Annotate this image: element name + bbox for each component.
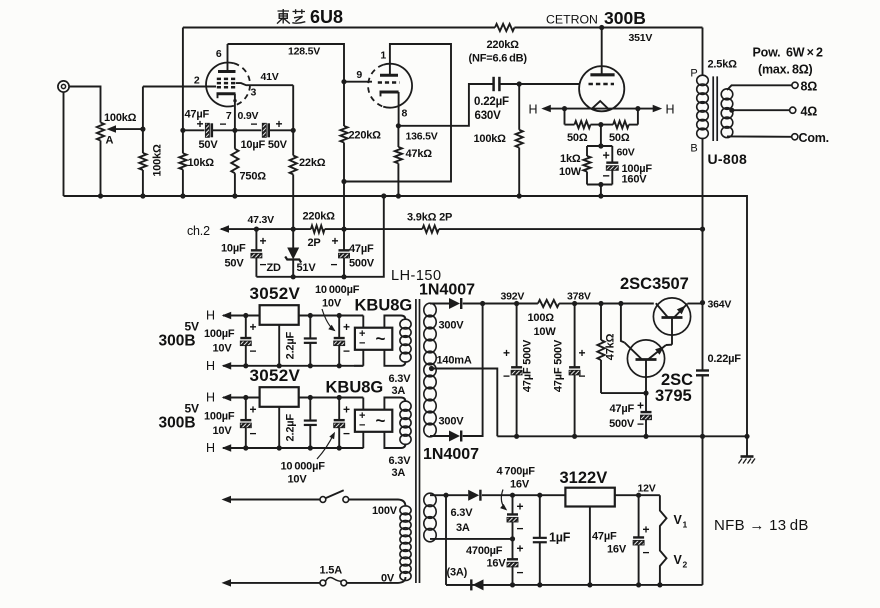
- label − (4700 #2): [517, 566, 524, 580]
- node cathode junction: [232, 128, 237, 133]
- svg-text:3: 3: [251, 87, 257, 99]
- label 4700µF #2: [466, 545, 503, 557]
- label 12V: [638, 483, 656, 495]
- label 6U8: [310, 7, 343, 27]
- capacitor 0.22µF output: [696, 303, 709, 437]
- svg-text:−: −: [331, 258, 338, 272]
- svg-text:KBU8G: KBU8G: [355, 297, 413, 315]
- svg-text:4Ω: 4Ω: [801, 105, 818, 119]
- svg-text:−: −: [503, 369, 510, 383]
- capacitor 47µF 16V: [633, 495, 644, 585]
- wire bottom diode up: [463, 304, 483, 437]
- label + in KBU8G (block 1): [359, 328, 365, 340]
- svg-text:47kΩ: 47kΩ: [406, 148, 433, 160]
- LH-150 core: [416, 299, 420, 583]
- plate bar 300B: [590, 28, 614, 75]
- node raw 12V: [510, 493, 515, 498]
- wire V1 V2 output: [660, 495, 667, 585]
- resistor 3.9kΩ 2P dropper: [422, 226, 439, 233]
- capacitor 4700µF 16V #2: [507, 539, 518, 585]
- node 100µF bottom (block 2): [243, 445, 248, 450]
- node 47µF 16V top: [636, 493, 641, 498]
- svg-text:47µF 500V: 47µF 500V: [522, 339, 534, 392]
- label ch.2: [187, 224, 210, 238]
- svg-text:47kΩ: 47kΩ: [605, 333, 617, 360]
- node 364V: [700, 300, 705, 305]
- node cathode network top: [598, 143, 603, 148]
- node zener tap: [291, 227, 296, 232]
- node grid-leak ground: [140, 193, 145, 198]
- wire mains line 2: [224, 582, 320, 584]
- svg-text:−: −: [343, 344, 350, 358]
- node 1µF bottom: [537, 582, 542, 587]
- wire Q2 base down: [645, 360, 647, 394]
- label H bottom (block 2): [206, 441, 215, 455]
- node cap1 gnd: [514, 434, 519, 439]
- node Q2 base filter: [643, 391, 648, 396]
- wire 3.9kΩ line left: [344, 228, 422, 230]
- tube U1a 6U8 pentode envelope: [206, 62, 250, 106]
- rectifier KBU8G box (block 2): [355, 410, 392, 432]
- label + (47µF 500V): [332, 234, 339, 248]
- svg-text:1: 1: [380, 50, 386, 62]
- svg-text:−: −: [250, 426, 257, 440]
- label 8Ω: [801, 80, 818, 94]
- node gnd pin (block 2): [277, 445, 282, 450]
- svg-text:10V: 10V: [288, 474, 308, 486]
- node 4700 bottom: [510, 582, 515, 587]
- wire B+ net down to filter node: [343, 182, 345, 230]
- svg-text:16V: 16V: [487, 558, 507, 570]
- svg-text:47µF: 47µF: [610, 403, 635, 415]
- svg-text:V: V: [674, 513, 683, 527]
- label 50Ω left: [567, 132, 588, 144]
- label + (cap2): [579, 346, 586, 360]
- label 136.5V: [406, 131, 438, 143]
- svg-text:392V: 392V: [501, 291, 525, 303]
- node cathode network bottom: [598, 182, 603, 187]
- svg-text:3A: 3A: [392, 467, 406, 479]
- tube V1 300B envelope: [579, 66, 624, 111]
- node rail left junction: [180, 128, 185, 133]
- label 50V: [199, 139, 219, 151]
- wire cathode out to coupling cap: [398, 84, 493, 126]
- node 10µF tap: [254, 227, 259, 232]
- svg-text:12V: 12V: [638, 483, 656, 495]
- svg-text:3122V: 3122V: [560, 469, 608, 487]
- label (NF=6.6dB): [469, 53, 528, 65]
- label 3052V (block 1): [250, 284, 301, 303]
- resistor 1kΩ 10W: [583, 146, 590, 185]
- label 47kΩ: [406, 148, 433, 160]
- wire mains line 1: [224, 499, 320, 501]
- svg-text:1N4007: 1N4007: [419, 282, 475, 299]
- label 630V: [475, 110, 502, 122]
- node 47k ground: [396, 193, 401, 198]
- svg-text:+: +: [343, 320, 350, 334]
- label Com.: [799, 131, 829, 145]
- label 1kΩ: [560, 153, 581, 165]
- svg-text:50V: 50V: [225, 258, 245, 270]
- arrow H left: [541, 105, 551, 113]
- label 5V (block 1): [185, 320, 199, 334]
- wire 47k to base node: [601, 392, 646, 394]
- label − (100µF): [603, 169, 610, 183]
- transistor Q2 2SC3795: [625, 340, 673, 377]
- svg-text:H: H: [206, 359, 215, 373]
- node 750R ground: [232, 193, 237, 198]
- svg-text:A: A: [106, 135, 114, 147]
- svg-text:3A: 3A: [456, 522, 470, 534]
- label 500V: [349, 258, 375, 270]
- label 47µF +: [610, 399, 645, 416]
- label KBU8G (block 1): [355, 297, 413, 315]
- svg-text:364V: 364V: [708, 299, 732, 311]
- wire plate line to node 9: [228, 44, 345, 82]
- svg-text:3A: 3A: [392, 385, 406, 397]
- arrow H right: [653, 105, 663, 113]
- label − (47µF 16V): [643, 546, 650, 560]
- node screen rail junction: [291, 128, 296, 133]
- node doubler top: [443, 493, 448, 498]
- wire cathode rail left: [183, 129, 205, 131]
- svg-text:H: H: [206, 309, 215, 323]
- label H left: [529, 103, 538, 117]
- svg-text:136.5V: 136.5V: [406, 131, 438, 143]
- capacitor 10000µF 10V (block 2): [334, 398, 345, 449]
- wire diode to 392V node: [463, 303, 517, 305]
- svg-text:6: 6: [216, 48, 222, 60]
- node 10000µF top (block 1): [337, 313, 342, 318]
- wire Q2 collector up: [621, 304, 625, 343]
- svg-text:3.9kΩ 2P: 3.9kΩ 2P: [407, 212, 452, 224]
- capacitor 100µF 10V (block 1): [240, 316, 251, 366]
- svg-text:378V: 378V: [567, 291, 591, 303]
- label − (10µF bias): [260, 258, 267, 272]
- svg-text:+: +: [343, 402, 350, 416]
- label 351V: [629, 32, 653, 44]
- svg-text:1N4007: 1N4007: [423, 446, 479, 463]
- svg-text:50V: 50V: [199, 139, 219, 151]
- label − in KBU8G (block 2): [359, 420, 365, 432]
- capacitor 0.22µF 630V coupling: [494, 77, 520, 91]
- wire 3.9kΩ line right: [439, 228, 703, 230]
- svg-text:300B: 300B: [159, 415, 196, 432]
- svg-text:8Ω: 8Ω: [801, 80, 818, 94]
- label − (100µF) (block 1): [250, 344, 257, 358]
- svg-text:6.3V: 6.3V: [389, 373, 412, 385]
- label 50Ω right: [609, 132, 630, 144]
- diode 1N4007 doubler bottom (3A): [446, 579, 513, 590]
- hum pot 50Ω left: [565, 109, 591, 129]
- wire main ground bus: [64, 196, 748, 436]
- label 10V (block 2): [213, 425, 233, 437]
- label 4Ω: [801, 105, 818, 119]
- svg-text:750Ω: 750Ω: [240, 171, 267, 183]
- svg-text:2.5kΩ: 2.5kΩ: [708, 59, 738, 71]
- wire cathode network frame: [587, 146, 612, 196]
- wire 5V bottom rail (block 1): [223, 365, 363, 367]
- label ~ in KBU8G (block 1): [376, 329, 386, 348]
- LH-150 6.3V 3A winding (12V): [424, 493, 436, 542]
- label 140mA: [437, 355, 472, 367]
- svg-text:2.2µF: 2.2µF: [285, 414, 297, 442]
- node fil left: [562, 106, 567, 111]
- svg-text:+: +: [517, 500, 524, 514]
- node cathode ground: [598, 193, 603, 198]
- label 16V #2: [487, 558, 507, 570]
- label 0V: [381, 573, 395, 585]
- node 0.22 gnd: [700, 434, 705, 439]
- node 100µF bottom (block 1): [243, 363, 248, 368]
- svg-text:~: ~: [376, 411, 386, 430]
- diode 1N4007 doubler top: [446, 490, 513, 501]
- annotation arrow to 10000µF (block 1): [322, 309, 336, 331]
- svg-text:10W: 10W: [534, 326, 557, 338]
- node 47µF bottom: [341, 274, 346, 279]
- tube U1b 6U8 triode envelope: [368, 64, 412, 108]
- wire KBU8G AC bottom (block 1): [384, 350, 405, 366]
- label 22kΩ: [299, 157, 326, 169]
- svg-text:3052V: 3052V: [250, 284, 301, 303]
- LH-150 HV secondary 300V-0-300V: [424, 303, 436, 437]
- svg-text:100µF: 100µF: [204, 328, 235, 340]
- label − (100µF) (block 2): [250, 426, 257, 440]
- wire 220k to B+ node: [325, 228, 344, 230]
- rectifier KBU8G box (block 1): [355, 328, 392, 350]
- label 300V top: [439, 320, 465, 332]
- wire KBU8G DC− lead (block 1): [354, 350, 363, 366]
- svg-text:100Ω: 100Ω: [528, 312, 555, 324]
- svg-text:2SC3507: 2SC3507: [620, 275, 689, 293]
- node 100k ground: [517, 193, 522, 198]
- svg-text:1: 1: [683, 520, 688, 530]
- wire KBU8G AC top (block 1): [384, 316, 405, 328]
- svg-text:Pow. 6W × 2: Pow. 6W × 2: [753, 46, 824, 60]
- label 47µF 500V rot1: [522, 339, 534, 392]
- node fil right: [635, 106, 640, 111]
- svg-text:100V: 100V: [372, 505, 398, 517]
- node 10000µF bottom (block 1): [337, 363, 342, 368]
- svg-text:+: +: [517, 542, 524, 556]
- label 16V (12V): [607, 544, 627, 556]
- svg-text:H: H: [529, 103, 538, 117]
- node base cap ground: [643, 434, 648, 439]
- svg-text:5V: 5V: [185, 320, 199, 334]
- svg-text:9: 9: [356, 69, 362, 81]
- svg-text:6U8: 6U8: [310, 7, 343, 27]
- label 128.5V: [288, 46, 320, 58]
- node 3122V gnd: [587, 582, 592, 587]
- svg-text:6.3V: 6.3V: [389, 455, 412, 467]
- wire grid line 300B: [519, 83, 580, 85]
- label 3122V: [560, 469, 608, 487]
- svg-text:1.5A: 1.5A: [320, 565, 343, 577]
- wire hum center down: [600, 125, 602, 146]
- grid dashed bar 300B: [589, 83, 615, 86]
- wire 5V bottom rail (block 2): [223, 447, 363, 449]
- fuse 1.5A: [320, 578, 347, 586]
- label 160V: [622, 174, 648, 186]
- label 3795: [655, 387, 692, 405]
- node 10k ground: [180, 193, 185, 198]
- wire filament H rail: [544, 108, 660, 110]
- switch SW: [320, 490, 349, 502]
- node lower rail to bus: [381, 193, 386, 198]
- label A (taper): [106, 135, 114, 147]
- svg-text:10V: 10V: [322, 298, 342, 310]
- svg-text:10µF: 10µF: [221, 243, 246, 255]
- svg-text:300V: 300V: [439, 320, 465, 332]
- wire 3052V gnd pin (block 2): [278, 407, 280, 448]
- wire fuse to primary: [347, 577, 406, 583]
- diode 1N4007 top: [449, 298, 461, 309]
- svg-text:8: 8: [402, 108, 408, 120]
- wire cathode lead down: [233, 94, 236, 131]
- label 100µF (block 1): [204, 328, 235, 340]
- svg-text:4700µF: 4700µF: [466, 545, 503, 557]
- resistor 750Ω cathode: [231, 130, 238, 196]
- label 10V (block 1): [213, 343, 233, 355]
- svg-text:100kΩ: 100kΩ: [152, 144, 164, 177]
- svg-text:−: −: [579, 369, 586, 383]
- label 1µF: [549, 531, 571, 545]
- svg-text:+: +: [276, 117, 283, 131]
- node B+ net corner: [341, 179, 346, 184]
- capacitor 100µF 10V (block 2): [240, 398, 251, 449]
- wire 3052V gnd pin (block 1): [278, 325, 280, 366]
- svg-text:160V: 160V: [622, 174, 648, 186]
- label NFB -> 13 dB: [714, 517, 809, 534]
- cathode bar triode: [380, 92, 399, 126]
- pot wiper arrow: [107, 125, 143, 133]
- label − (47µF 500V): [331, 258, 338, 272]
- node cathode pin 8: [396, 123, 401, 128]
- arrow H bottom (block 1): [222, 362, 232, 370]
- label ~ in KBU8G (block 2): [376, 411, 386, 430]
- node 392V: [514, 301, 519, 306]
- node 2.2µF bottom (block 2): [308, 445, 313, 450]
- label 5V (block 2): [185, 402, 199, 416]
- svg-text:47µF: 47µF: [592, 531, 617, 543]
- label pin 1: [380, 50, 386, 62]
- label 3A (12V supply): [456, 522, 470, 534]
- svg-text:47µF: 47µF: [349, 243, 374, 255]
- label 392V: [501, 291, 525, 303]
- annotation arrow to 4700µF: [500, 490, 507, 511]
- label + (100µF) (block 1): [250, 320, 257, 334]
- resistor 22kΩ screen feed: [290, 130, 297, 229]
- wire screen pin 3 line: [236, 83, 293, 130]
- node grid 300B junction: [517, 81, 522, 86]
- svg-text:22kΩ: 22kΩ: [299, 157, 326, 169]
- label H bottom (block 1): [206, 359, 215, 373]
- label 10 000µF (block 2): [281, 461, 326, 473]
- node cap2 gnd: [572, 434, 577, 439]
- capacitor 10µF 50V screen bypass: [235, 123, 293, 137]
- label 10 000µF (block 1): [315, 284, 360, 296]
- svg-text:P: P: [690, 68, 697, 80]
- label 100Ω: [528, 312, 555, 324]
- node wiper junction: [140, 127, 145, 132]
- node zener bottom: [291, 274, 296, 279]
- node hum center: [598, 122, 603, 127]
- node 47k tap: [598, 301, 603, 306]
- svg-text:+: +: [637, 399, 644, 413]
- label 1.5A: [320, 565, 343, 577]
- svg-text:−: −: [359, 338, 365, 350]
- regulator 3052V box (block 1): [260, 305, 299, 325]
- svg-text:220kΩ: 220kΩ: [487, 39, 520, 51]
- label 0.22µF: [474, 96, 509, 108]
- svg-text:5V: 5V: [185, 402, 199, 416]
- svg-text:ZD: ZD: [267, 262, 282, 274]
- label 100kΩ pot: [104, 112, 137, 124]
- label 50V (10µF): [225, 258, 245, 270]
- label 47kΩ rot: [605, 333, 617, 360]
- label pin 7: [226, 110, 232, 122]
- label + (10µF bias): [260, 234, 267, 248]
- arrow H top (block 2): [222, 394, 232, 401]
- label 300B out (block 1): [159, 333, 196, 350]
- svg-text:47.3V: 47.3V: [248, 214, 275, 226]
- svg-text:+: +: [332, 234, 339, 248]
- svg-text:47µF: 47µF: [185, 109, 210, 121]
- node HV center tap: [429, 366, 434, 371]
- node 100µF top (block 2): [243, 395, 248, 400]
- svg-text:10W: 10W: [559, 166, 582, 178]
- svg-text:CETRON: CETRON: [546, 13, 598, 27]
- label + (47µF 16V): [643, 523, 650, 537]
- arrow ch.2: [220, 225, 230, 233]
- label − (10µF): [251, 117, 258, 131]
- node 1µF top: [537, 493, 542, 498]
- svg-text:351V: 351V: [629, 32, 653, 44]
- svg-text:300V: 300V: [439, 416, 465, 428]
- wire 3122V gnd pin: [589, 507, 591, 585]
- label + (10000µF) (block 2): [343, 402, 350, 416]
- label 100kΩ grid leak (rotated): [152, 144, 164, 177]
- arrow H bottom (block 2): [222, 444, 232, 452]
- label pin 3: [251, 87, 257, 99]
- arrow mains 2: [222, 579, 232, 587]
- label 100µF (block 2): [204, 410, 235, 422]
- svg-text:300B: 300B: [159, 333, 196, 350]
- svg-text:16V: 16V: [607, 544, 627, 556]
- zener ZD 51V: [285, 229, 301, 277]
- label − (10000µF) (block 1): [343, 344, 350, 358]
- diode 1N4007 bottom: [449, 431, 461, 442]
- resistor 220kΩ NFB: [495, 24, 514, 31]
- wire winding top line: [430, 494, 446, 496]
- svg-text:10µF 50V: 10µF 50V: [241, 139, 288, 151]
- svg-text:1µF: 1µF: [549, 531, 571, 545]
- svg-text:−: −: [359, 420, 365, 432]
- wire grid line to pin 2: [143, 86, 216, 88]
- svg-text:−: −: [251, 117, 258, 131]
- svg-text:2.2µF: 2.2µF: [285, 332, 297, 360]
- grid dashed bar triode: [378, 81, 400, 84]
- label 378V: [567, 291, 591, 303]
- svg-text:+: +: [643, 523, 650, 537]
- wire 8Ω tap: [727, 85, 792, 90]
- label 2SC: [661, 371, 693, 389]
- svg-text:−: −: [517, 522, 524, 536]
- label 2.2µF rot (block 2): [285, 414, 297, 442]
- node cap stack mid: [510, 536, 515, 541]
- label LH-150: [391, 268, 442, 284]
- node 9 junction: [341, 79, 346, 84]
